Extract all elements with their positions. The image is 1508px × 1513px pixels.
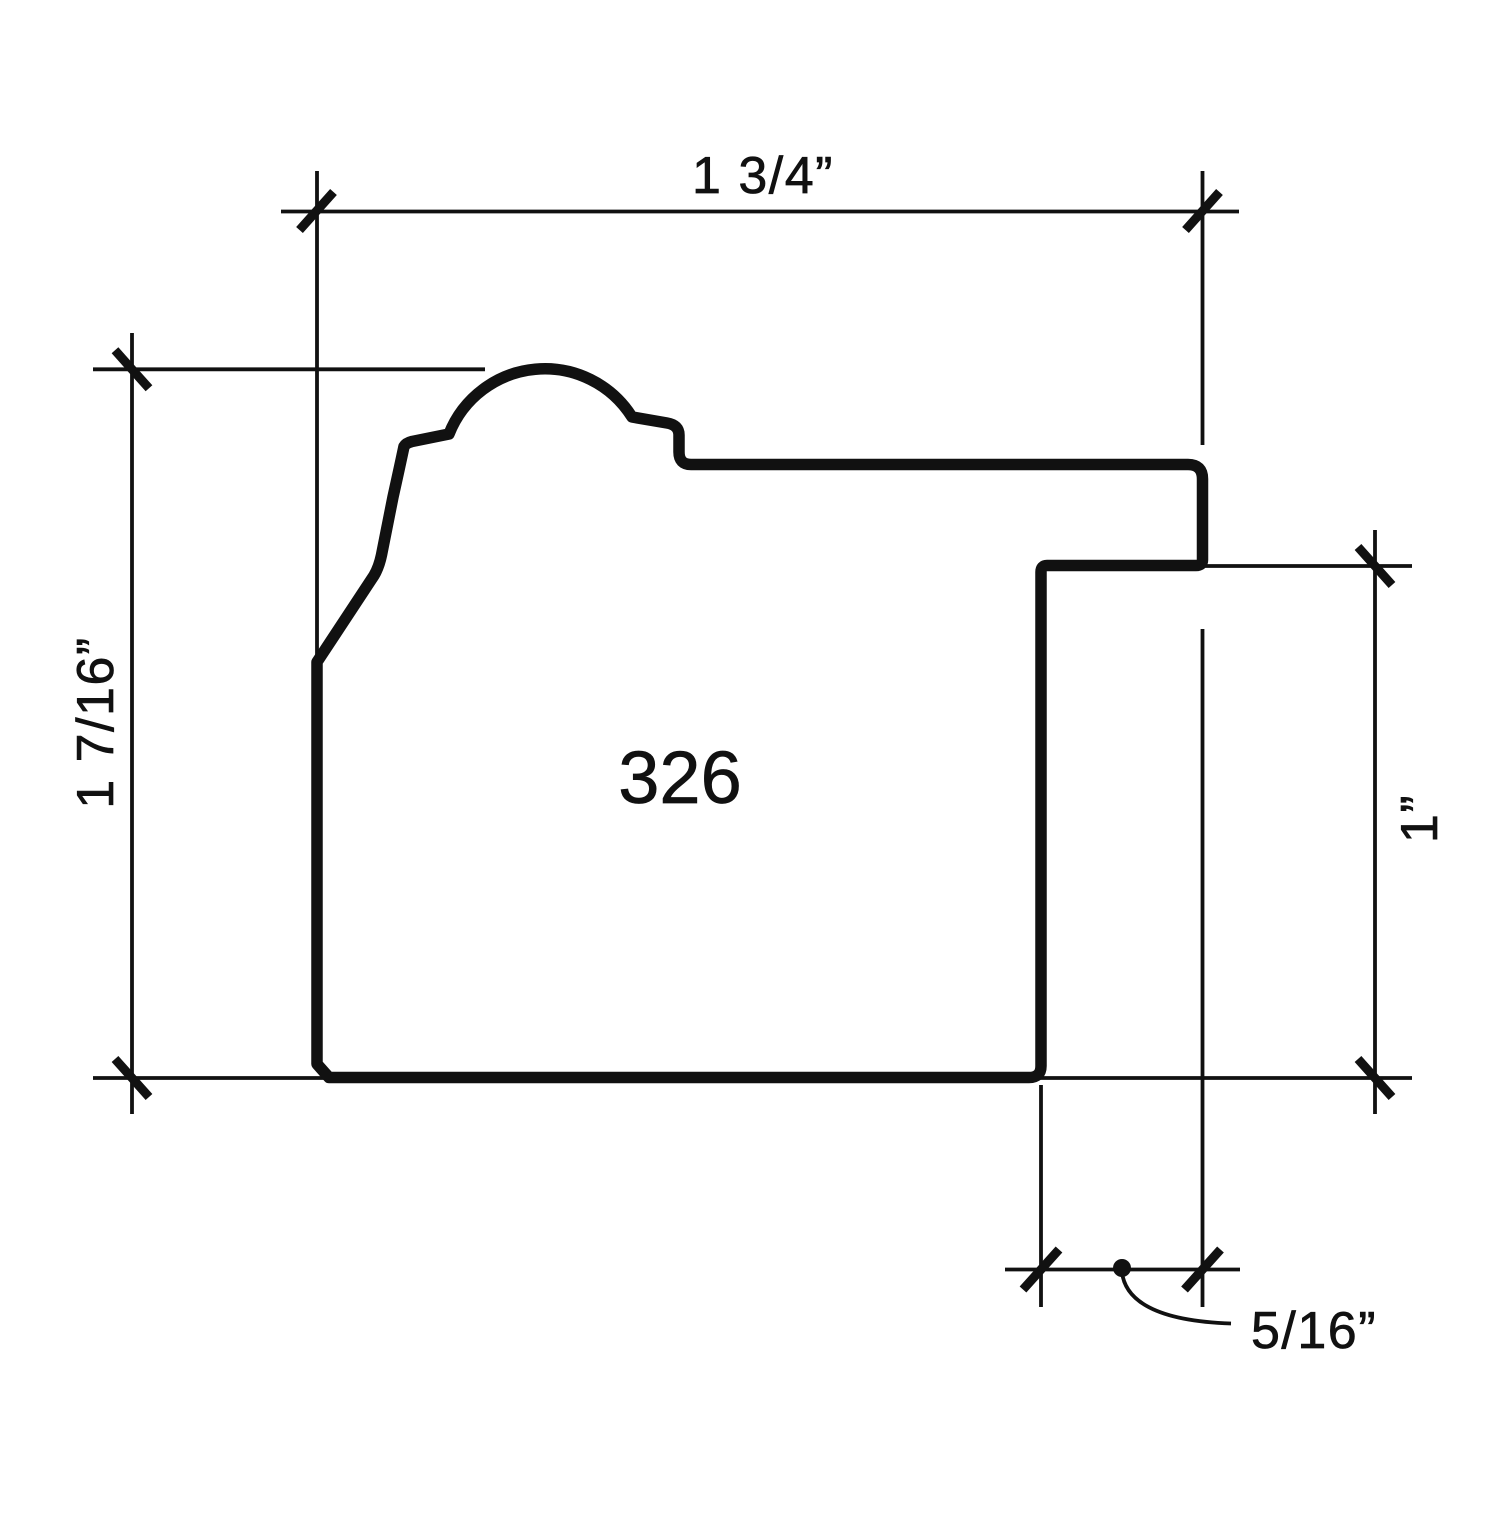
extension line bottom-right leg bbox=[1201, 629, 1205, 1307]
extension line top-left bbox=[315, 171, 319, 656]
extension line top-right bbox=[1201, 171, 1205, 445]
extension line right-top bbox=[1205, 564, 1412, 568]
tick bottom-left bbox=[1023, 1250, 1059, 1290]
extension line left-top bbox=[93, 367, 485, 371]
svg-text:326: 326 bbox=[618, 736, 741, 819]
right dimension line 1 inch bbox=[1373, 530, 1377, 1114]
leader curve to 5/16 label bbox=[1122, 1272, 1231, 1324]
svg-text:1 3/4”: 1 3/4” bbox=[692, 147, 834, 205]
tick right-bottom bbox=[1358, 1059, 1392, 1097]
top dimension line 1 3/4 bbox=[281, 210, 1239, 214]
leader dot bbox=[1113, 1259, 1131, 1277]
tick bottom-right bbox=[1185, 1250, 1221, 1290]
tick left-top bbox=[115, 350, 149, 388]
extension line bottom (shared) bbox=[93, 1076, 1412, 1080]
tick top-right bbox=[1186, 192, 1220, 230]
left dimension line 1 7/16 bbox=[130, 333, 134, 1114]
tick left-bottom bbox=[115, 1059, 149, 1097]
tick right-top bbox=[1358, 547, 1392, 585]
tick top-left bbox=[300, 192, 334, 230]
svg-text:1”: 1” bbox=[1391, 794, 1449, 843]
extension line bottom-left leg bbox=[1039, 1085, 1043, 1307]
svg-text:1 7/16”: 1 7/16” bbox=[67, 636, 125, 808]
moulding profile 326 outline bbox=[317, 369, 1203, 1078]
svg-text:5/16”: 5/16” bbox=[1251, 1302, 1377, 1360]
bottom dimension line 5/16 bbox=[1005, 1268, 1240, 1272]
